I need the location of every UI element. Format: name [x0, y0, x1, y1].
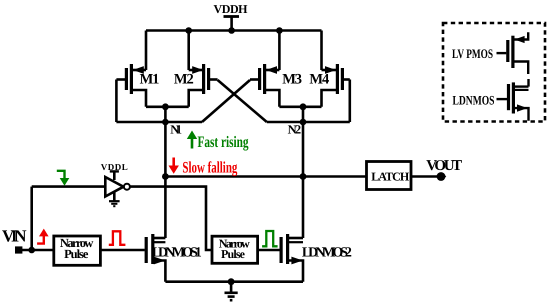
svg-text:Slow falling: Slow falling	[182, 160, 237, 177]
svg-text:VIN: VIN	[2, 227, 27, 246]
wire latch output	[411, 175, 438, 178]
box latch	[367, 162, 412, 190]
svg-text:LDNMOS2: LDNMOS2	[302, 246, 352, 261]
wire inverter input	[32, 185, 106, 188]
legend PMOS drain arm	[514, 62, 529, 75]
wire M3 source riser	[278, 31, 281, 71]
svg-text:M1: M1	[140, 71, 160, 87]
arrow legend PMOS	[514, 36, 524, 43]
node VIN riser	[28, 247, 35, 254]
wire M2 source riser	[187, 31, 190, 71]
svg-text:M3: M3	[282, 71, 302, 87]
node N2 latch line	[300, 173, 307, 180]
node rail-M2	[185, 27, 192, 34]
annotations	[37, 131, 278, 247]
wire inverter output	[130, 187, 212, 250]
wire NP1 to LDNMOS1 gate	[100, 249, 144, 252]
wire NP2 to LDNMOS2 gate	[258, 249, 280, 252]
ground symbol	[225, 282, 238, 301]
legend PMOS source arm	[514, 32, 529, 39]
svg-text:VOUT: VOUT	[426, 158, 462, 174]
glyph red pulse	[109, 231, 126, 245]
svg-text:Fast rising: Fast rising	[198, 134, 249, 151]
wire latch line	[165, 175, 366, 178]
svg-text:N2: N2	[288, 123, 302, 137]
arrow LDNMOS2 source	[291, 257, 302, 265]
arrow M4 source	[325, 66, 336, 74]
transistor M1	[116, 64, 146, 107]
legend NMOS drain arm	[514, 85, 529, 87]
wire diagonal M3 gate to N1	[202, 80, 250, 122]
wire VDDH T-cap	[224, 15, 240, 18]
wire M4 source riser	[320, 31, 323, 71]
glyph red rising edge	[37, 235, 44, 244]
wire node N1 vertical	[164, 107, 167, 238]
wire M4 gate hook	[348, 80, 351, 123]
legend NMOS gate bar	[507, 84, 510, 110]
inverter VDDL cap	[110, 170, 119, 172]
wire node N2 vertical	[302, 107, 305, 238]
wire U1 common drain	[146, 106, 189, 109]
op-amp style inverter triangle	[105, 177, 123, 197]
wire VIN lead	[22, 249, 54, 252]
legend NMOS channel	[512, 82, 515, 113]
transistor M4	[322, 64, 350, 107]
node rail-M3	[276, 27, 283, 34]
node N2 top	[300, 103, 307, 110]
arrow slow falling (red)	[172, 158, 175, 169]
svg-text:Pulse: Pulse	[64, 247, 89, 261]
node rail-VDDH	[228, 27, 235, 34]
legend NMOS gate lead	[497, 98, 508, 100]
node N2 gate tie	[300, 119, 307, 126]
box narrow pulse 2	[212, 236, 258, 263]
arrow M1 source	[133, 66, 144, 74]
transistor M2	[189, 64, 218, 107]
legend PMOS U gate lead	[497, 52, 507, 54]
legend box	[443, 23, 545, 122]
node N1 top	[162, 103, 169, 110]
legend PMOS channel	[511, 36, 514, 68]
wire M1 gate hook	[115, 80, 118, 123]
VIN terminal	[15, 246, 22, 253]
svg-text:LDNMOS1: LDNMOS1	[152, 246, 202, 261]
arrow M3 source	[266, 66, 277, 74]
inverter VDDL stub	[113, 171, 116, 180]
wire VDDH rail	[146, 29, 322, 32]
wire ground rail	[165, 280, 303, 283]
transistor LDNMOS1	[146, 234, 165, 282]
svg-text:VDDH: VDDH	[214, 2, 249, 16]
wire VDDH stub	[230, 17, 233, 31]
node ground rail	[228, 278, 235, 285]
node N1 latch line	[162, 173, 169, 180]
legend dashed border	[443, 23, 545, 122]
wire VIN riser	[30, 187, 33, 250]
glyph green pulse	[262, 231, 278, 246]
svg-text:VDDL: VDDL	[101, 162, 128, 172]
wire cross-couple left horizontal	[116, 121, 202, 124]
box narrow pulse 1	[54, 236, 101, 265]
arrow fast rising (green)	[191, 136, 194, 149]
svg-text:M4: M4	[309, 71, 329, 87]
svg-text:M2: M2	[174, 71, 194, 87]
legend NMOS drift line	[514, 89, 529, 91]
svg-text:LV PMOS: LV PMOS	[452, 46, 493, 61]
arrow LDNMOS1 source	[154, 257, 165, 265]
inverter ground bars	[109, 200, 120, 202]
arrow M2 source	[192, 66, 203, 74]
svg-text:LDNMOS: LDNMOS	[453, 92, 495, 107]
glyph green falling edge	[57, 171, 65, 180]
transistor LDNMOS2	[281, 234, 303, 282]
wire M1 source riser	[145, 31, 148, 71]
wire diagonal M2 gate to N2	[218, 80, 267, 122]
inverter bubble	[124, 184, 130, 190]
svg-text:N1: N1	[170, 123, 182, 137]
inverter ground stub	[113, 192, 116, 201]
wire cross-couple right horizontal	[267, 121, 350, 124]
transistor M3	[250, 64, 279, 107]
arrow legend NMOS	[517, 104, 527, 111]
svg-text:LATCH: LATCH	[371, 170, 410, 184]
legend PMOS gate bar	[506, 40, 509, 62]
svg-text:Pulse: Pulse	[221, 247, 246, 261]
node N1 gate tie	[162, 119, 169, 126]
legend NMOS source arm	[514, 108, 529, 121]
VOUT terminal	[437, 172, 446, 181]
legend NMOS drain stub	[527, 79, 529, 87]
wire U2 common drain	[279, 106, 321, 109]
